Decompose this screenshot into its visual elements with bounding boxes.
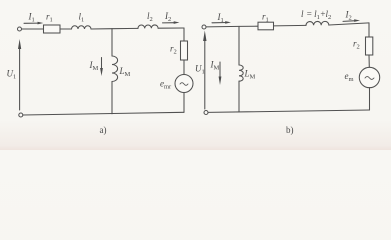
current arrow I1 (a)	[24, 22, 40, 24]
resistor r2 (b)	[366, 37, 373, 55]
svg-text:I1: I1	[217, 12, 224, 24]
branch wire node M down (b)	[238, 26, 240, 65]
svg-text:l2: l2	[147, 11, 153, 23]
terminal bottom-left (b)	[204, 111, 208, 115]
svg-text:emr: emr	[160, 79, 172, 91]
wire source to bottom rail (b)	[369, 88, 371, 110]
wire l to right corner (b)	[329, 23, 369, 25]
svg-text:LM: LM	[119, 66, 131, 78]
svg-text:a): a)	[100, 125, 107, 135]
inductor l=l1+l2 (b)	[306, 21, 329, 25]
svg-text:IM: IM	[89, 60, 99, 72]
resistor r1 (a)	[44, 25, 61, 33]
svg-text:r1: r1	[262, 12, 269, 24]
wire l2 to right corner (a)	[158, 27, 184, 29]
terminal bottom-left (a)	[19, 113, 23, 117]
wire r2 to source (a)	[183, 60, 185, 75]
svg-text:em: em	[345, 71, 354, 83]
voltage arrow U1 (a)	[19, 47, 21, 110]
svg-text:U1: U1	[195, 64, 205, 76]
svg-text:IM: IM	[210, 60, 220, 72]
wire r1 to l (b)	[274, 24, 307, 27]
current arrow I2 (a)	[163, 22, 176, 24]
inductor L_M (a)	[112, 56, 118, 82]
wire l1 to node M (a)	[91, 27, 138, 30]
voltage arrow U1 (b)	[204, 39, 206, 109]
svg-text:r2: r2	[353, 39, 360, 51]
inductor l2 (a)	[138, 25, 158, 28]
current arrow I1 (b)	[212, 22, 227, 24]
wire bottom rail (b)	[208, 110, 370, 112]
svg-text:I2: I2	[345, 10, 352, 22]
branch wire node M down (a)	[111, 29, 113, 56]
svg-text:l = l1+l2: l = l1+l2	[301, 9, 331, 21]
wire top rail left segment (b)	[206, 25, 258, 28]
branch wire L_M to bottom (b)	[238, 81, 240, 112]
current arrow IM (a)	[101, 58, 103, 70]
current arrow I2 (b)	[343, 20, 356, 23]
AC source e_m (b)	[359, 67, 379, 87]
wire between r1 and l1 (a)	[60, 28, 72, 30]
wire r2 to source (b)	[368, 55, 370, 67]
inductor L_M (b)	[239, 65, 243, 81]
svg-text:I2: I2	[164, 11, 171, 23]
terminal top-left (a)	[18, 27, 22, 31]
resistor r1 (b)	[258, 22, 274, 30]
svg-text:l1: l1	[79, 12, 85, 24]
svg-text:r1: r1	[46, 12, 53, 24]
inductor l1 (a)	[72, 26, 92, 29]
resistor r2 (a)	[181, 41, 188, 60]
wire source to bottom rail (a)	[183, 93, 185, 113]
svg-text:U1: U1	[7, 69, 17, 81]
svg-text:LM: LM	[244, 69, 256, 81]
svg-text:b): b)	[286, 125, 294, 135]
svg-text:r2: r2	[170, 44, 177, 56]
branch wire L_M to bottom (a)	[111, 82, 113, 114]
current arrow IM (b)	[219, 62, 221, 78]
terminal top-left (b)	[202, 25, 206, 29]
wire right column top (b)	[368, 23, 370, 37]
svg-text:I1: I1	[28, 12, 35, 24]
wire top rail left segment (a)	[22, 28, 44, 30]
wire right column top (a)	[183, 28, 185, 41]
wire bottom rail (a)	[23, 112, 184, 115]
AC source e_mr (a)	[175, 75, 193, 93]
